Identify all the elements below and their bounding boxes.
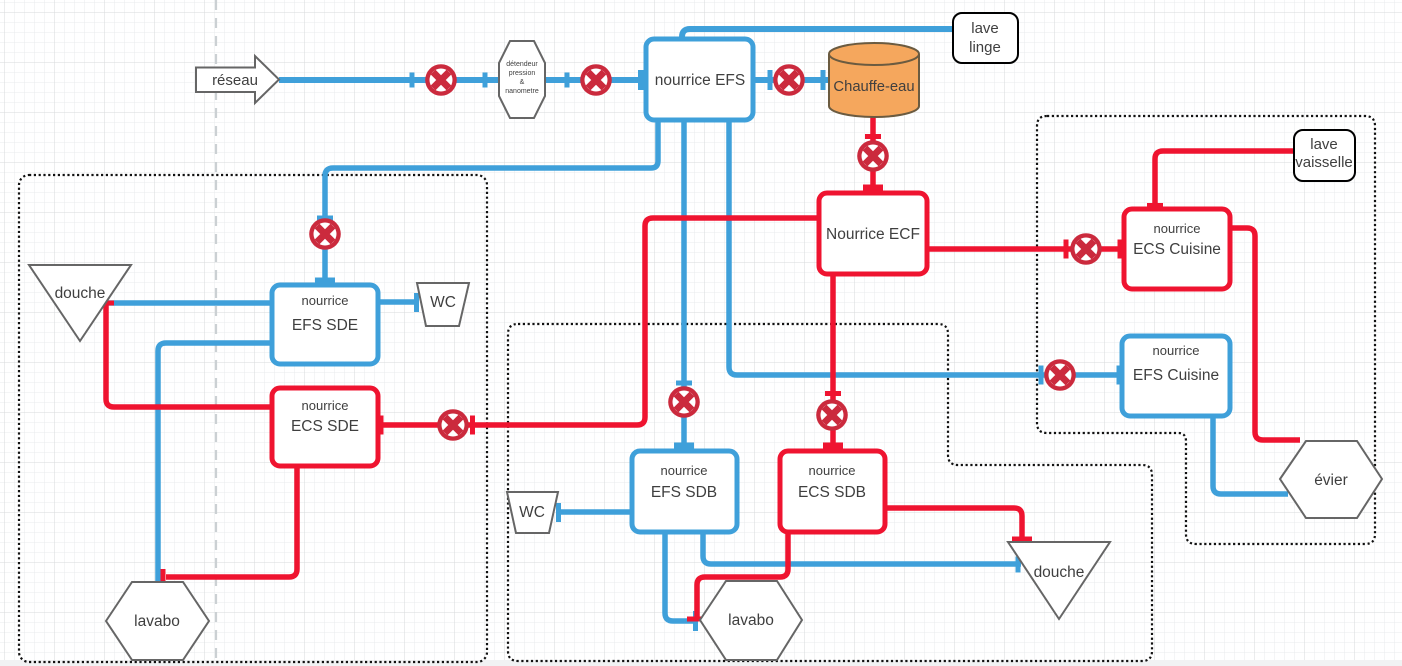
valve main 2 [580,64,612,96]
svg-text:vaisselle: vaisselle [1295,154,1353,171]
svg-text:WC: WC [430,294,456,311]
pipe nourrice EFS to EFS SDB [681,120,687,451]
hexagon evier [1280,441,1382,518]
tick above valve EFS SDE [317,216,333,221]
box lave vaisselle [1294,130,1355,181]
svg-text:EFS Cuisine: EFS Cuisine [1133,367,1219,384]
box nourrice EFS SDB [632,451,737,532]
valve below chauffe-eau [857,140,889,172]
box Nourrice ECF [819,193,927,274]
box nourrice ECS SDE [272,388,378,466]
pipe EFS SDE to WC [378,299,417,305]
valve ECS SDE [437,409,469,441]
pipe chauffe-eau to Nourrice ECF [870,117,876,193]
tick above valve ECS SDB [825,391,841,396]
svg-text:Chauffe-eau: Chauffe-eau [833,79,914,95]
valve ECS Cuisine [1070,233,1102,265]
svg-text:nourrice: nourrice [302,293,349,308]
tick above valve EFS SDB [676,381,692,386]
pipe ECS SDB to lavabo [697,532,788,618]
valve EFS SDB [668,386,700,418]
box nourrice EFS [646,39,753,120]
pipe main supply reseau to nourrice EFS [279,77,643,83]
tick main supply 1 [410,73,415,88]
svg-text:WC: WC [519,504,545,521]
trapezoid WC SDB [507,492,558,533]
tick at ECS Cuisine box left [1118,240,1123,259]
pipe Nourrice ECF to ECS Cuisine [927,246,1122,252]
tick at douche SDB red [1012,537,1032,542]
box nourrice EFS SDE [272,285,378,364]
pipe ECS SDE to douche [106,303,272,407]
tick main supply 2 [483,73,488,88]
pipe Nourrice ECF to ECS SDE [378,218,819,425]
pipe ECS SDB to douche [885,508,1022,540]
pipe EFS Cuisine to evier [1213,416,1288,494]
tick at ECS Cuisine box top [1147,203,1163,208]
tick at ECS SDE box right [379,416,384,435]
svg-text:pression: pression [509,70,536,77]
tick at lavabo SDB red [687,617,707,622]
svg-text:lavabo: lavabo [134,613,180,630]
svg-text:nourrice: nourrice [661,463,708,478]
reseau arrow [196,56,279,103]
valve chauffe-eau [773,64,805,96]
tick before valve EFS Cuisine [1039,366,1044,385]
tick at EFS SDE box top [315,278,335,284]
tick before valve ECS Cuisine [1064,240,1069,259]
tick at nourrice EFS inlet [638,70,644,90]
svg-text:nourrice: nourrice [302,398,349,413]
tick chauffe-eau pipe right [821,70,826,90]
tick main supply 3 [565,73,570,88]
svg-text:ECS SDE: ECS SDE [291,418,359,435]
tick at lavabo SDB blue [693,611,698,631]
tick at EFS Cuisine box [1117,366,1122,385]
tick at douche SDB [1016,557,1021,573]
svg-text:évier: évier [1314,472,1348,489]
pipe EFS SDB to lavabo [665,532,695,621]
svg-text:lavabo: lavabo [728,612,774,629]
svg-text:nourrice EFS: nourrice EFS [655,72,745,89]
svg-text:&: & [520,79,525,86]
tick at EFS SDB box top [674,443,694,449]
svg-text:nanometre: nanometre [505,88,539,95]
page break dashed line [215,0,217,660]
pipe Nourrice ECF to ECS SDB [830,274,836,451]
box lave linge [953,13,1018,63]
triangle douche SDB [1008,542,1110,619]
pipe nourrice EFS to EFS Cuisine [729,120,1122,375]
pipe EFS SDB to douche [703,532,1021,564]
svg-text:lave: lave [971,20,999,37]
svg-text:réseau: réseau [212,72,258,89]
tick below chauffe-eau [865,134,881,139]
svg-text:ECS Cuisine: ECS Cuisine [1133,241,1221,258]
box nourrice ECS Cuisine [1124,209,1230,289]
hexagon lavabo SDB [700,581,802,660]
hexagon lavabo SDE [106,582,209,660]
bottom scrollbar strip [0,660,1402,666]
pipe nourrice EFS to EFS SDE [325,120,658,285]
tick chauffe-eau pipe left [768,70,773,90]
box nourrice ECS SDB [780,451,885,532]
tick at lavabo SDE red [161,569,166,585]
detendeur pression octagon [499,41,545,118]
tick at WC SDE [414,293,419,312]
tick at ECS SDB box top [823,443,843,449]
svg-text:EFS SDB: EFS SDB [651,484,717,501]
pipe EFS SDE to douche [105,300,272,306]
svg-text:lave: lave [1310,136,1338,153]
pipe EFS SDE to lavabo [158,343,272,582]
svg-text:Nourrice ECF: Nourrice ECF [826,226,920,243]
tick at douche SDE red [98,301,114,306]
pipe nourrice EFS to chauffe-eau [753,77,829,83]
svg-text:nourrice: nourrice [1153,343,1200,358]
tick at WC SDB [556,503,561,522]
trapezoid WC SDE [417,283,469,326]
box nourrice EFS Cuisine [1122,336,1230,416]
chauffe-eau cylinder [829,54,919,117]
valve EFS Cuisine [1044,359,1076,391]
pipe EFS SDB to WC [558,509,632,515]
zone SDB dotted border [508,324,1152,661]
svg-text:douche: douche [1034,564,1085,581]
valve EFS SDE [309,218,341,250]
svg-text:ECS SDB: ECS SDB [798,484,866,501]
svg-text:linge: linge [969,39,1001,56]
triangle douche SDE [29,265,131,341]
pipe nourrice EFS to lave linge [682,29,953,42]
valve ECS SDB [816,399,848,431]
svg-text:nourrice: nourrice [809,463,856,478]
svg-text:nourrice: nourrice [1154,221,1201,236]
zone SDE dotted border [19,175,487,662]
valve main 1 [425,64,457,96]
svg-text:douche: douche [55,285,106,302]
zone cuisine dotted border [1037,116,1375,544]
tick above Nourrice ECF [863,185,883,191]
svg-text:détendeur: détendeur [506,61,538,68]
pipe lave vaisselle to ECS Cuisine [1155,151,1294,209]
svg-text:EFS SDE: EFS SDE [292,317,358,334]
pipe ECS Cuisine to evier [1230,228,1300,440]
pipe ECS SDE to lavabo [166,466,297,577]
tick right of valve ECS SDE [470,416,475,435]
